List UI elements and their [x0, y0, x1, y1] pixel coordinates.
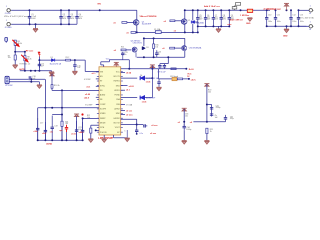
flag output top gnd — [284, 3, 289, 6]
ground PGND — [125, 138, 130, 141]
ground sync — [38, 82, 40, 85]
wire VIN filtered bus — [185, 9, 270, 11]
svg-text:C12: C12 — [292, 14, 295, 16]
svg-text:LDRV2: LDRV2 — [114, 109, 120, 111]
svg-text:+elec: +elec — [227, 24, 232, 26]
wire r14 gnd — [90, 133, 92, 139]
wire d4 to rail — [144, 77, 152, 79]
capacitor C3 — [67, 10, 70, 24]
wire fb row — [52, 89, 99, 91]
wire bias left vert — [143, 38, 145, 46]
node ss2 — [95, 129, 97, 131]
wire D2 bottom — [192, 24, 194, 33]
wire sync link — [30, 79, 32, 81]
svg-text:VISNS: VISNS — [100, 113, 106, 115]
capacitor C8 — [220, 10, 223, 26]
flag VOUT sense — [74, 114, 79, 117]
svg-text:BasDio M 1A: BasDio M 1A — [50, 62, 62, 65]
wire bias top rail — [144, 37, 185, 39]
capacitor C10 — [265, 10, 268, 26]
svg-text:SW2: SW2 — [116, 113, 120, 115]
svg-text:=24.9: =24.9 — [84, 96, 90, 99]
svg-text:VOUT = 30V @ 3A: VOUT = 30V @ 3A — [298, 17, 315, 20]
capacitor C2 — [59, 10, 62, 24]
ground cap bank — [218, 26, 220, 28]
wire boot2 row — [121, 97, 138, 99]
wire zener link — [195, 21, 198, 23]
wire Q2 drain vertical — [184, 10, 186, 19]
wire R11 top — [61, 115, 63, 122]
wire to C23 — [137, 124, 143, 126]
node vcc row — [128, 68, 130, 70]
resistor R2 — [131, 32, 136, 34]
svg-text:C19: C19 — [54, 126, 57, 128]
wire R11 bottom — [61, 126, 63, 140]
node Q2 rail junctions — [184, 31, 186, 33]
wire fb branch — [61, 90, 63, 107]
svg-text:D2: D2 — [188, 20, 190, 22]
testpoint TP1 — [234, 3, 241, 7]
wire VIN top bus left — [11, 9, 137, 11]
wire flag fb down — [51, 74, 53, 85]
wire vcc row right — [159, 68, 187, 70]
pin stub left 2 — [96, 78, 99, 80]
wire output bottom rail — [267, 25, 307, 27]
node vout corner — [136, 124, 138, 126]
capacitor C31b — [210, 114, 213, 115]
svg-text:AGND: AGND — [46, 142, 52, 145]
svg-text:D3: D3 — [146, 47, 148, 49]
svg-text:5: 5 — [124, 131, 125, 133]
transistor Q3 — [132, 47, 137, 52]
resistor R8 RT — [24, 56, 26, 61]
wire sync lower — [9, 81, 39, 83]
svg-text:0.1u: 0.1u — [140, 133, 144, 135]
svg-text:=2n2: =2n2 — [42, 133, 46, 135]
resistor R19 — [177, 78, 182, 80]
wire c34 gnd — [183, 130, 185, 140]
node vcc out — [185, 68, 187, 70]
ground C15 — [72, 71, 77, 74]
capacitor C5 — [196, 10, 199, 26]
svg-text:DITH: DITH — [100, 127, 105, 129]
svg-text:C13: C13 — [300, 14, 303, 16]
capacitor C30 — [157, 79, 160, 87]
svg-text:opt: opt — [59, 129, 62, 132]
diode D2 zener clamp — [191, 21, 194, 24]
svg-text:HDRV1: HDRV1 — [114, 81, 120, 83]
svg-text:LDRV1: LDRV1 — [114, 90, 120, 92]
svg-text:10k: 10k — [155, 46, 158, 48]
wire slope stub — [121, 72, 125, 74]
wire cap bank bottom rail — [198, 25, 230, 27]
svg-text:ISNSP: ISNSP — [100, 118, 106, 120]
capacitor C28 — [163, 64, 166, 69]
node vcc node — [188, 78, 190, 80]
wire vcc pin row long — [121, 68, 159, 70]
wire analog bus — [20, 70, 52, 72]
svg-text:1uF: 1uF — [215, 117, 218, 119]
wire RT drop — [24, 52, 26, 56]
wire boot1 row — [121, 77, 138, 79]
svg-text:COMP: COMP — [100, 104, 106, 106]
svg-text:1u: 1u — [125, 54, 127, 56]
wire vout corner — [136, 119, 138, 130]
wire EP stub — [103, 135, 105, 139]
ground R7 — [13, 65, 18, 68]
node slope junction — [206, 121, 208, 123]
wire slope tap — [207, 104, 212, 106]
svg-text:R15: R15 — [121, 47, 124, 49]
ground R5 sense — [247, 18, 252, 21]
wire R6 bottom — [14, 45, 16, 55]
testpoint TP2 — [232, 7, 237, 11]
ground C34 — [182, 141, 187, 144]
node fb bus junctions — [44, 107, 46, 109]
flag fb column — [50, 73, 55, 76]
testpoint TP3 red — [38, 53, 41, 58]
svg-text:Add 2 10uF cer: Add 2 10uF cer — [204, 5, 220, 8]
wire EN tap — [15, 51, 25, 53]
svg-text:VBurst P50NF06: VBurst P50NF06 — [140, 15, 158, 18]
diode D5 — [140, 96, 144, 100]
node dith junction — [183, 121, 185, 123]
svg-text:SYNC: SYNC — [100, 85, 106, 87]
diode D4 — [140, 76, 144, 80]
svg-text:FB1 bead: FB1 bead — [170, 76, 178, 78]
svg-text:GND: GND — [283, 35, 288, 37]
svg-text:Add 1 0R kel: Add 1 0R kel — [230, 18, 244, 21]
transistor Q1 PMOS — [133, 20, 139, 26]
capacitor C11 — [274, 10, 277, 26]
svg-text:R9 2: R9 2 — [66, 57, 70, 59]
wire csa stub — [121, 103, 125, 105]
capacitor C32 — [224, 115, 227, 122]
svg-text:J4: J4 — [309, 29, 311, 31]
svg-text:10n: 10n — [185, 115, 188, 117]
svg-text:F1 15A: F1 15A — [154, 28, 161, 31]
svg-text:100u: 100u — [300, 21, 304, 23]
wire bias drop left — [108, 60, 110, 62]
inductor FB1 bead — [172, 77, 177, 80]
flag slope branch — [204, 84, 209, 87]
node VIN bus junctions — [29, 9, 31, 11]
wire pgnd vert — [126, 130, 128, 138]
svg-text:100u: 100u — [268, 21, 272, 23]
wire TP3 vertical — [38, 57, 40, 71]
svg-text:=0 nnn: =0 nnn — [126, 115, 133, 117]
pin stubs U1 all rows — [97, 72, 123, 132]
flag boot rail — [150, 65, 155, 68]
resistor R21 — [206, 128, 208, 133]
wire R8 to bus — [24, 61, 26, 71]
connector J4 VOUT- — [309, 25, 313, 28]
wire bias tap down — [167, 57, 169, 63]
wire bias row — [109, 59, 129, 61]
svg-text:C11: C11 — [277, 14, 280, 16]
svg-text:100u: 100u — [277, 21, 281, 23]
wire ss drop — [90, 125, 92, 128]
wire VIN return — [11, 23, 77, 25]
svg-text:VIN = 6 V-42 V (48 V max): VIN = 6 V-42 V (48 V max) — [4, 16, 29, 18]
wire slope tap2 — [207, 121, 226, 123]
svg-text:100V: 100V — [31, 18, 36, 20]
svg-text:=0 xxx: =0 xxx — [151, 125, 158, 127]
wire dith vert — [183, 109, 185, 126]
diode D3 — [142, 47, 145, 50]
flag dith branch — [182, 108, 187, 111]
capacitor C17 — [36, 118, 39, 140]
wire left branch drop — [37, 108, 39, 140]
wire slope cap column — [211, 105, 213, 117]
capacitor C21 — [75, 121, 78, 140]
testpoint red dot — [81, 113, 83, 115]
wire vcc chain — [159, 78, 189, 80]
capacitor C23 — [143, 124, 147, 127]
wire slope tap2 left — [193, 121, 207, 123]
node bias top — [143, 37, 145, 39]
node Q1 source — [136, 31, 138, 33]
svg-text:470p: 470p — [230, 118, 234, 120]
capacitor C13 — [297, 10, 300, 26]
op-amp U1 LM5175 body — [99, 67, 121, 135]
capacitor C25 — [121, 52, 124, 56]
capacitor C34 — [183, 124, 186, 130]
wire sync upper — [9, 78, 45, 80]
resistor R14 — [90, 128, 92, 133]
trimmer arrow R8 — [21, 55, 28, 62]
node VIN return junctions — [29, 23, 31, 25]
svg-text:C10: C10 — [268, 14, 271, 16]
svg-text:BasDio M,F: BasDio M,F — [146, 98, 156, 100]
wire fuse to Q2 rail — [161, 31, 198, 33]
pin stub left 4 — [96, 96, 99, 98]
svg-text:8 COMP: 8 COMP — [85, 104, 93, 106]
capacitor C4 — [75, 10, 78, 24]
wire slope branch vert — [206, 84, 208, 122]
node EN divider — [14, 51, 16, 53]
svg-text:J1 VIN: J1 VIN — [5, 13, 12, 15]
node R9 out — [74, 59, 76, 61]
svg-text:PGND: PGND — [114, 95, 120, 97]
wire r17 to q4 — [175, 47, 182, 49]
wire q4 drain — [184, 38, 186, 45]
wire pgnd stub — [113, 135, 115, 138]
capacitor C31 — [210, 108, 213, 109]
ground R14 — [88, 139, 93, 142]
svg-text:40.2k: 40.2k — [27, 58, 31, 60]
svg-text:BOOT2: BOOT2 — [114, 122, 120, 124]
svg-text:SLOPE: SLOPE — [100, 109, 107, 111]
node analog bus junctions — [24, 70, 26, 72]
wire c20 to bus — [66, 132, 68, 140]
svg-text:VIN: VIN — [97, 4, 101, 6]
wire c28 top — [163, 63, 165, 65]
svg-text:SW1: SW1 — [116, 85, 120, 87]
svg-text:100u: 100u — [292, 21, 296, 23]
wire csb stub — [121, 109, 125, 111]
pin stub left 1 — [96, 71, 99, 73]
label U1 pin names right — [114, 71, 121, 133]
wire q3 bottom — [135, 52, 137, 57]
ground C30 — [157, 87, 162, 90]
node bias bottom — [143, 56, 145, 58]
capacitor C14 — [38, 62, 41, 68]
connector J1 VIN+ — [7, 9, 11, 12]
svg-text:=2.49: =2.49 — [85, 93, 91, 96]
node slope tap — [206, 104, 208, 106]
wire boot rail — [151, 66, 153, 98]
resistor R16 — [153, 44, 155, 49]
ground output — [286, 26, 288, 29]
svg-text:AGND: AGND — [100, 94, 106, 97]
pin stub ss2 — [96, 129, 99, 131]
svg-text:=0 see: =0 see — [126, 110, 133, 112]
node fb row — [61, 89, 63, 91]
wire hdrv1 stub — [121, 85, 128, 87]
node bias tap — [167, 56, 169, 58]
capacitor C27 — [158, 64, 161, 69]
svg-text:4 SYNC: 4 SYNC — [84, 79, 91, 81]
transistor Q2 PMOS — [181, 19, 187, 25]
diode D1 — [51, 59, 54, 62]
svg-text:=0 xxx: =0 xxx — [150, 133, 157, 135]
wire r21 gnd — [206, 134, 208, 141]
svg-text:1 0R Res: 1 0R Res — [240, 15, 250, 17]
wire bias bottom rail — [137, 56, 185, 58]
transistor Q4 — [182, 46, 187, 51]
resistor R1 gate — [122, 22, 127, 24]
resistor R9 — [66, 59, 71, 61]
wire bias right vert — [153, 38, 155, 57]
wire D2 top — [192, 10, 194, 20]
wire bias drop right — [128, 60, 130, 69]
wire fb to IC — [83, 117, 99, 119]
net flag VIN left — [5, 38, 15, 43]
svg-text:10k: 10k — [208, 91, 211, 93]
wire D1 row — [39, 59, 75, 61]
connector J5 sync — [5, 76, 9, 83]
flag VCC on IC top — [114, 62, 119, 65]
svg-text:10k: 10k — [8, 57, 11, 59]
svg-text:1.0k: 1.0k — [87, 117, 90, 119]
svg-text:17 CSA: 17 CSA — [126, 103, 133, 106]
wire vout pin row — [121, 118, 137, 120]
wire fb bus — [38, 107, 99, 109]
node d4 rail — [151, 77, 153, 79]
wire flag stub — [115, 63, 117, 67]
svg-text:=0.01: =0.01 — [146, 81, 151, 83]
node output bottom junctions — [266, 25, 268, 27]
ground EP — [102, 139, 107, 142]
svg-text:=0.03: =0.03 — [129, 86, 135, 88]
svg-text:PGOOD: PGOOD — [100, 132, 107, 134]
wire bias tap row — [160, 63, 168, 65]
wire R4 to Q2 gate — [175, 20, 182, 22]
capacitor C15 — [73, 60, 76, 71]
node bottom bus junctions — [37, 139, 39, 141]
node RT tap — [24, 51, 26, 53]
wire comp verticals — [44, 108, 46, 140]
capacitor C24 — [135, 130, 138, 134]
wire ss row — [91, 124, 99, 126]
svg-text:1: 1 — [310, 5, 311, 7]
node C24 bottom — [136, 133, 138, 135]
svg-text:R10 1k: R10 1k — [54, 85, 60, 87]
wire sync drop — [44, 79, 46, 108]
capacitor C6 — [204, 10, 207, 26]
svg-text:C17: C17 — [40, 123, 43, 125]
wire bottom agnd bus — [38, 139, 83, 141]
wire ldrv stub — [121, 114, 125, 116]
svg-text:SQJ457EP: SQJ457EP — [142, 23, 152, 25]
svg-text:J5 SYNC: J5 SYNC — [5, 85, 13, 87]
wire mid rail to fuse — [137, 31, 156, 33]
wire Q1 drain drop — [136, 10, 138, 19]
ground analog bus — [51, 70, 53, 73]
svg-text:1k: 1k — [210, 131, 212, 133]
node filtered bus junctions — [184, 9, 186, 11]
svg-text:CSD19538Q3A: CSD19538Q3A — [189, 47, 202, 50]
capacitor C9 — [228, 10, 231, 26]
resistor R10 — [51, 85, 53, 89]
resistor R5 shunt 0R — [247, 9, 252, 12]
svg-text:J2 GND: J2 GND — [5, 27, 13, 29]
connector J2 VIN- — [7, 23, 11, 26]
capacitor C16 inline — [29, 76, 32, 81]
resistor R6 top divider — [14, 40, 16, 45]
wire VCC to IC pin1 — [75, 59, 85, 61]
svg-text:1u: 1u — [158, 53, 160, 55]
svg-text:RT wire: RT wire — [26, 50, 34, 53]
wire fb corner drop — [82, 118, 84, 140]
capacitor C22 — [81, 122, 84, 140]
wire Q1 source drop — [136, 25, 138, 32]
resistor R4 gate — [170, 20, 175, 22]
capacitor C12 — [289, 10, 292, 26]
resistor R7 bottom divider — [14, 55, 16, 60]
svg-text:HDRV2: HDRV2 — [114, 118, 120, 120]
svg-text:1: 1 — [310, 21, 311, 23]
svg-text:49.9k: 49.9k — [18, 43, 22, 45]
wire c25 stub — [122, 56, 124, 60]
svg-text:=1n: =1n — [50, 132, 53, 134]
wire R7 to gnd — [14, 60, 16, 65]
resistor R11 — [61, 121, 63, 126]
resistor R18 — [171, 68, 176, 70]
svg-text:D1: D1 — [51, 57, 53, 59]
svg-text:=0.01: =0.01 — [142, 102, 147, 104]
svg-text:2200p: 2200p — [216, 107, 221, 109]
svg-text:GND: GND — [246, 23, 251, 25]
ground R21 — [204, 141, 209, 144]
wire q4 source — [184, 51, 186, 58]
svg-text:BOOT1: BOOT1 — [114, 76, 120, 78]
node output bus junctions — [240, 9, 242, 11]
node D1 anode — [38, 59, 40, 61]
capacitor C20 red electrolytic — [65, 125, 68, 132]
ground input — [35, 24, 37, 28]
pin stub left 3 — [96, 85, 99, 87]
svg-text:MODE: MODE — [100, 122, 106, 124]
node r11 — [61, 114, 63, 116]
capacitor C19 — [51, 116, 54, 141]
resistor R17 — [170, 47, 175, 49]
capacitor C1 — [28, 10, 31, 24]
svg-text:D4: D4 — [140, 75, 142, 77]
wire sw1 stub — [121, 89, 125, 91]
node fb corner — [82, 117, 84, 119]
